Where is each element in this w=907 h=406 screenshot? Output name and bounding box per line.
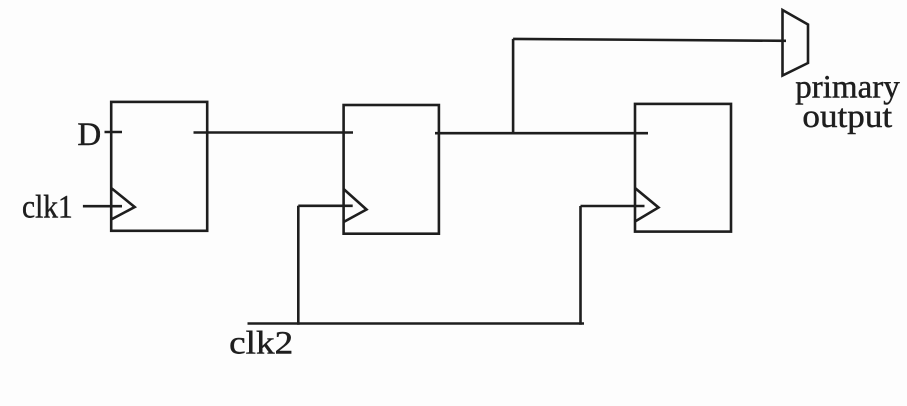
flip-flop U1 clock wedge <box>111 188 135 220</box>
svg-text:output: output <box>802 99 892 135</box>
wire D input stub <box>105 131 123 134</box>
wire U2 Q to U3 D <box>435 132 648 135</box>
wire U1 Q to U2 D <box>194 131 354 134</box>
wire clk2 branch to U3 vertical <box>579 206 582 325</box>
svg-text:clk1: clk1 <box>22 190 73 226</box>
wire clk1 input <box>83 205 122 208</box>
svg-text:D: D <box>77 117 101 153</box>
wire clk2 branch to U3 horizontal <box>581 205 645 208</box>
svg-text:clk2: clk2 <box>229 325 293 361</box>
flip-flop U3 box <box>635 104 731 232</box>
wire clk2 branch to U2 horizontal <box>298 205 352 208</box>
wire vertical branch from U2 Q up <box>512 39 515 133</box>
flip-flop U3 clock wedge <box>635 188 659 222</box>
flip-flop U1 box <box>111 102 207 231</box>
flip-flop U2 box <box>344 105 439 234</box>
output pad (primary output) <box>783 10 809 76</box>
wire clk2 branch to U2 vertical <box>297 206 300 325</box>
wire clk2 horizontal bus <box>248 322 585 325</box>
wire top run to output pad <box>513 39 786 41</box>
flip-flop U2 clock wedge <box>344 189 367 222</box>
